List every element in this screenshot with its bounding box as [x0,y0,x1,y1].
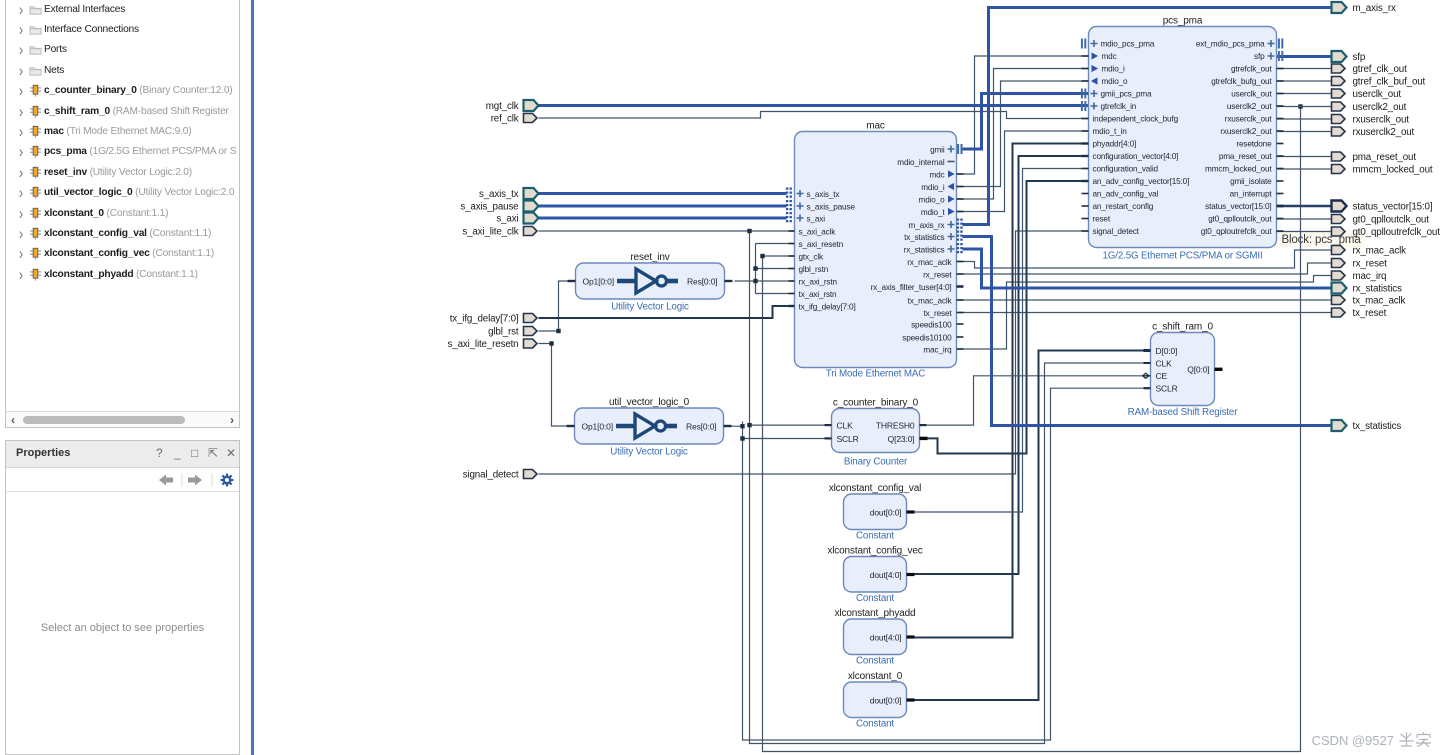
port s_axis_pause [524,201,539,212]
svg-text:an_restart_config: an_restart_config [1093,202,1154,211]
svg-text:mac_irq: mac_irq [1353,271,1387,282]
counter pin SCLR [825,437,832,439]
svg-text:tx_reset: tx_reset [924,309,953,318]
svg-text:Constant: Constant [856,656,894,667]
wire net userclk2 to mac gtx_clk [763,255,795,257]
pcs_pma pin gmii_isolate [1230,177,1283,186]
wire interface sfp [1277,55,1332,58]
svg-text:signal_detect: signal_detect [463,470,519,481]
pcs_pma pin phyaddr[4:0] [1082,140,1137,149]
pcs_pma pin rxuserclk_out [1225,115,1284,124]
svg-text:tx_statistics: tx_statistics [904,233,944,242]
pcs_pma pin gtrefclk_bufg_out [1211,77,1283,86]
svg-text:rxuserclk_out: rxuserclk_out [1225,115,1273,124]
interface mark mac right 248.5 [958,243,962,255]
svg-text:xlconstant_config_vec: xlconstant_config_vec [827,546,922,557]
svg-text:an_adv_config_vector[15:0]: an_adv_config_vector[15:0] [1093,177,1190,186]
wire to mac glbl_rstn [756,268,795,270]
wire net userclk2 bottom loop [763,107,1301,752]
port m_axis_rx [1332,2,1347,13]
port rxuserclk2_out [1332,127,1346,136]
wire net mdio_o to mdio_i [957,69,1089,200]
mac pin gtx_clk [789,253,824,262]
port sfp [1332,51,1347,62]
svg-text:dout[0:0]: dout[0:0] [870,507,902,517]
svg-text:s_axi_lite_clk: s_axi_lite_clk [462,227,518,238]
svg-text:SCLR: SCLR [837,434,859,444]
mac pin tx_ifg_delay[7:0] [789,303,856,312]
port userclk_out [1332,89,1346,98]
wire bus status_vector[15:0] [1277,205,1332,208]
svg-text:mdc: mdc [1102,52,1117,61]
svg-text:reset_inv: reset_inv [630,252,669,263]
svg-text:D[0:0]: D[0:0] [1156,346,1178,356]
counter pin THRESH0 [920,424,927,426]
pcs_pma pin gt0_qploutrefclk_out [1201,227,1284,236]
wire net mmcm_locked_out [1277,168,1332,170]
svg-text:s_axi_aclk: s_axi_aclk [799,228,837,237]
svg-text:c_shift_ram_0: c_shift_ram_0 [1152,322,1213,333]
svg-text:gmii_pcs_pma: gmii_pcs_pma [1101,90,1153,99]
wire bus xlconstant_phyadd to phyaddr[4:0] [910,144,1089,638]
port s_axi_lite_clk [524,227,538,236]
shift ram pin D[0:0] [1144,346,1178,356]
mac pin s_axi_aclk [789,228,837,237]
mac pin mdio_i [921,183,963,192]
svg-text:util_vector_logic_0: util_vector_logic_0 [609,397,690,408]
junction gtx_clk [760,254,764,258]
svg-text:mdio_o: mdio_o [1102,77,1129,86]
horizontal scrollbar [5,411,240,428]
svg-text:ext_mdio_pcs_pma: ext_mdio_pcs_pma [1196,40,1265,49]
svg-text:gt0_qplloutclk_out: gt0_qplloutclk_out [1208,215,1272,224]
svg-text:mac: mac [866,121,885,132]
wire interface s_axis_pause [539,205,787,208]
svg-text:sfp: sfp [1353,52,1366,63]
wire net s_axi_lite_resetn to util_vector_logic_0 Op1 [539,344,575,427]
svg-text:signal_detect: signal_detect [1093,227,1140,236]
svg-text:Res[0:0]: Res[0:0] [687,276,717,286]
pcs_pma pin resetdone [1236,140,1283,149]
svg-text:speedis10100: speedis10100 [902,334,952,343]
junction util Res [740,424,744,428]
port userclk2_out [1332,102,1346,111]
svg-text:CLK: CLK [837,421,854,431]
mac pin s_axi [797,215,826,224]
IP block util_vector_logic_0 (Utility Vector Logic) U-uvl0 inverter symbol [616,414,677,438]
wire net mdio_o to mac mdio_i [957,81,1089,187]
junction glbl_rst [556,329,560,333]
svg-text:gmii_isolate: gmii_isolate [1230,177,1272,186]
pcs_pma pin reset [1082,215,1111,224]
svg-text:gt0_qplloutrefclk_out: gt0_qplloutrefclk_out [1353,227,1440,238]
junction s_axi_lite_resetn [549,341,553,345]
svg-text:mdio_t: mdio_t [921,208,946,217]
svg-text:gtref_clk_buf_out: gtref_clk_buf_out [1353,77,1426,88]
svg-text:rx_mac_aclk: rx_mac_aclk [1353,246,1407,257]
mac pin mdio_o [919,195,964,204]
wire to mac rx_axi_rstn [756,280,795,282]
wire bus tx_ifg_delay[7:0] [539,306,795,318]
port gtref_clk_buf_out [1332,77,1346,86]
wire net mdc [957,56,1089,174]
panel divider sash [251,0,254,755]
svg-text:rx_reset: rx_reset [1353,259,1388,270]
svg-text:sfp: sfp [1254,52,1265,61]
wire util_vector_logic Res out [724,425,743,427]
input port signal_detect [463,470,519,481]
mac pin tx_mac_aclk [908,297,964,306]
svg-text:rx_statistics: rx_statistics [904,246,945,255]
svg-text:mdio_internal: mdio_internal [897,158,945,167]
port rxuserclk_out [1332,115,1346,124]
svg-text:tx_ifg_delay[7:0]: tx_ifg_delay[7:0] [450,314,519,325]
port tx_ifg_delay[7:0] [524,314,538,323]
wire net counter THRESH0 to c_shift_ram CE [920,376,1143,425]
pcs_pma pin gt0_qplloutclk_out [1208,215,1283,224]
port status_vector[15:0] [1332,201,1347,212]
IP block xlconstant_phyadd (Constant) [835,608,916,667]
IP block reset_inv (Utility Vector Logic) U-resetinv Res pin [725,280,733,282]
svg-text:mdio_o: mdio_o [919,196,946,205]
wire net gt0_qplloutclk_out [1277,218,1332,220]
wire net tx_mac_aclk [957,299,1332,301]
svg-text:CLK: CLK [1156,358,1173,368]
pcs_pma pin sfp [1254,52,1274,61]
mac pin speedis100 [911,321,963,330]
wire net xlconstant_config_val to configuration_valid [910,169,1089,513]
shift ram pin Q[0:0] [1215,368,1223,371]
pcs_pma pin gtrefclk_in [1091,102,1137,111]
IP block c_counter_binary_0 (Binary Counter) U-counter [832,398,920,468]
wire net rx_reset [957,263,1332,274]
svg-text:THRESH0: THRESH0 [876,421,915,431]
mac pin m_axis_rx [909,221,955,230]
pcs_pma pin status_vector[15:0] [1205,202,1283,211]
svg-text:Constant: Constant [856,531,894,542]
svg-text:Tri Mode Ethernet MAC: Tri Mode Ethernet MAC [826,369,925,380]
svg-text:gmii: gmii [930,146,945,155]
svg-text:xlconstant_phyadd: xlconstant_phyadd [835,608,916,619]
port gt0_qplloutclk_out [1332,215,1346,224]
svg-text:an_interrupt: an_interrupt [1230,190,1273,199]
svg-text:s_axi: s_axi [496,214,518,225]
port tx_mac_aclk [1332,296,1346,305]
svg-text:RAM-based Shift Register: RAM-based Shift Register [1128,407,1239,418]
svg-text:an_adv_config_val: an_adv_config_val [1093,190,1159,199]
wire net pma_reset_out [1277,156,1332,158]
junction counter CLK tap [747,423,751,427]
interface mark mac 205.5 [787,200,791,212]
IP block pcs_pma (1G/2.5G Ethernet PCS/PMA or SGMII) U-pcs [1089,16,1277,262]
xlconstant_config_val pin dout[0:0] [870,507,915,517]
svg-text:s_axis_tx: s_axis_tx [479,189,519,200]
input port glbl_rst [488,327,519,338]
watermark CSDN [1312,732,1432,748]
svg-text:Q[0:0]: Q[0:0] [1187,365,1209,375]
svg-text:gt0_qploutrefclk_out: gt0_qploutrefclk_out [1201,227,1273,236]
svg-text:glbl_rstn: glbl_rstn [799,265,829,274]
port s_axi_lite_resetn [524,339,538,348]
IP block reset_inv (Utility Vector Logic) U-resetinv inverter symbol [617,269,678,293]
svg-text:userclk_out: userclk_out [1353,89,1402,100]
svg-text:dout[0:0]: dout[0:0] [870,695,902,705]
mac pin mdio_t [921,208,964,217]
svg-text:tx_ifg_delay[7:0]: tx_ifg_delay[7:0] [799,303,856,312]
svg-text:mgt_clk: mgt_clk [486,101,519,112]
pcs_pma pin mmcm_locked_out [1205,165,1283,174]
svg-text:rx_axi_rstn: rx_axi_rstn [799,278,838,287]
svg-text:tx_statistics: tx_statistics [1353,421,1402,432]
svg-text:pma_reset_out: pma_reset_out [1219,152,1273,161]
svg-text:ref_clk: ref_clk [491,114,519,125]
mac pin mdio_internal [897,158,954,167]
svg-text:Utility Vector Logic: Utility Vector Logic [611,302,689,313]
svg-text:mac_irq: mac_irq [923,346,952,355]
pcs_pma pin an_interrupt [1230,190,1284,199]
wire interface s_axi [539,217,787,220]
pcs_pma pin mdio_t_in [1082,127,1128,136]
svg-text:Q[23:0]: Q[23:0] [888,434,915,444]
mac pin tx_statistics [904,233,954,242]
wire net s_axi_lite_clk to c_shift_ram CLK (bottom route) [750,231,1151,744]
port rx_mac_aclk [1332,246,1346,255]
svg-text:independent_clock_bufg: independent_clock_bufg [1093,115,1179,124]
svg-text:mdio_pcs_pma: mdio_pcs_pma [1101,40,1155,49]
mac pin s_axis_tx [797,190,840,199]
port pma_reset_out [1332,152,1346,161]
svg-text:mdc: mdc [929,171,944,180]
svg-text:userclk2_out: userclk2_out [1353,102,1407,113]
port gt0_qplloutrefclk_out [1332,227,1346,236]
svg-text:Op1[0:0]: Op1[0:0] [582,421,613,431]
svg-text:s_axis_pause: s_axis_pause [807,203,856,212]
input port s_axi [496,214,518,225]
port ref_clk [524,114,538,123]
input port s_axis_tx [479,189,519,200]
pcs_pma pin mdio_pcs_pma [1091,40,1155,49]
properties panel [5,440,240,755]
wire net clk to counter CLK [750,424,832,426]
svg-text:tx_reset: tx_reset [1353,308,1387,319]
mac pin tx_axi_rstn [789,290,838,299]
pcs_pma pin gtrefclk_out [1231,65,1284,74]
svg-text:gtx_clk: gtx_clk [799,253,824,262]
svg-text:xlconstant_0: xlconstant_0 [848,671,903,682]
svg-text:rxuserclk_out: rxuserclk_out [1353,115,1410,126]
design hierarchy tree panel [5,0,240,428]
wire interface s_axis_tx [539,192,787,195]
svg-text:rx_statistics: rx_statistics [1353,284,1402,295]
port mgt_clk [524,100,539,111]
port s_axis_tx [524,188,539,199]
pcs_pma pin independent_clock_bufg [1082,115,1179,124]
svg-text:Res[0:0]: Res[0:0] [686,421,716,431]
svg-text:gtrefclk_in: gtrefclk_in [1101,102,1137,111]
wire net userclk2_out [1277,106,1332,108]
IP block xlconstant_config_val (Constant) [829,483,921,542]
svg-text:rx_mac_aclk: rx_mac_aclk [907,258,952,267]
junction reset comb a [753,266,757,270]
pcs_pma pin an_adv_config_vector[15:0] [1082,177,1190,186]
wire interface gmii to gmii_pcs_pma [963,94,1089,150]
interface mark mac right 236 [958,231,962,243]
svg-text:tx_mac_aclk: tx_mac_aclk [908,297,953,306]
wire interface tx_statistics [963,237,1332,426]
mac pin rx_axi_rstn [789,278,838,287]
wire reset_inv Res to comb [735,280,756,282]
wire net userclk_out [1277,93,1332,95]
svg-text:dout[4:0]: dout[4:0] [870,570,902,580]
interface mark mac 217.5 [787,212,791,224]
junction userclk2_out [1298,104,1302,108]
wire to mac s_axi_resetn [756,243,795,245]
pcs_pma pin mdio_o [1082,77,1129,86]
wire net mac_irq [957,276,1332,350]
wire interface mgt_clk to gtrefclk_in [539,104,1089,107]
input port s_axis_pause [460,202,519,213]
mac pin s_axis_pause [797,203,856,212]
svg-text:reset: reset [1093,215,1111,224]
interface mark mac gmii [958,144,961,154]
svg-text:s_axi_lite_resetn: s_axi_lite_resetn [448,339,519,350]
svg-text:status_vector[15:0]: status_vector[15:0] [1353,202,1433,213]
IP block util_vector_logic_0 (Utility Vector Logic) U-uvl0 Op1 pin [567,425,575,427]
svg-text:CE: CE [1156,371,1168,381]
IP block util_vector_logic_0 (Utility Vector Logic) U-uvl0 Res pin [724,425,732,427]
mac pin mdc [929,170,963,179]
svg-text:pma_reset_out: pma_reset_out [1353,152,1417,163]
svg-text:s_axis_pause: s_axis_pause [460,202,519,213]
mac pin rx_axis_filter_tuser[4:0] [871,283,964,292]
port rx_reset [1332,259,1346,268]
port mac_irq [1332,271,1346,280]
svg-text:rxuserclk2_out: rxuserclk2_out [1353,127,1415,138]
svg-text:mdio_i: mdio_i [1102,65,1126,74]
svg-text:rx_reset: rx_reset [923,271,952,280]
mac pin gmii [930,146,954,155]
svg-text:gtref_clk_out: gtref_clk_out [1353,64,1408,75]
svg-text:gtrefclk_bufg_out: gtrefclk_bufg_out [1211,77,1272,86]
mac pin rx_statistics [904,246,955,255]
svg-text:tx_axi_rstn: tx_axi_rstn [799,290,838,299]
mac pin s_axi_resetn [789,240,844,249]
mac pin glbl_rstn [789,265,829,274]
mac pin rx_reset [923,271,963,280]
wire net gt0_qplloutrefclk_out [1277,231,1332,233]
svg-text:mmcm_locked_out: mmcm_locked_out [1205,165,1272,174]
wire interface m_axis_rx [963,8,1332,225]
svg-text:speedis100: speedis100 [911,321,952,330]
interface mark mac right 224 [958,219,962,231]
pcs_pma pin userclk2_out [1227,102,1284,111]
mac pin rx_mac_aclk [907,258,963,267]
svg-text:xlconstant_config_val: xlconstant_config_val [829,483,921,494]
counter pin CLK [825,424,832,426]
svg-text:configuration_valid: configuration_valid [1093,165,1159,174]
svg-text:mdio_i: mdio_i [921,183,945,192]
shift ram pin SCLR [1144,384,1178,394]
wire net rxuserclk2_out [1277,131,1332,133]
svg-text:resetdone: resetdone [1236,140,1272,149]
svg-text:glbl_rst: glbl_rst [488,327,519,338]
port rx_statistics [1332,283,1347,294]
shift ram pin CLK [1144,358,1173,368]
svg-text:configuration_vector[4:0]: configuration_vector[4:0] [1093,152,1179,161]
svg-text:dout[4:0]: dout[4:0] [870,632,902,642]
svg-text:phyaddr[4:0]: phyaddr[4:0] [1093,140,1137,149]
wire net mdio_t to mdio_t_in [957,131,1089,212]
pcs_pma pin signal_detect [1082,227,1140,236]
svg-text:Op1[0:0]: Op1[0:0] [583,276,614,286]
pcs_pma pin configuration_valid [1082,165,1159,174]
svg-text:SCLR: SCLR [1156,384,1178,394]
wire net gtref_clk_buf_out [1277,80,1332,82]
svg-text:s_axi_resetn: s_axi_resetn [799,240,844,249]
svg-text:m_axis_rx: m_axis_rx [909,221,945,230]
wire vertical reset comb [755,244,757,294]
svg-text:s_axi: s_axi [807,215,826,224]
svg-text:rx_axis_filter_tuser[4:0]: rx_axis_filter_tuser[4:0] [871,283,952,292]
mac pin tx_reset [924,309,964,318]
port s_axi [524,213,539,224]
input port tx_ifg_delay[7:0] [450,314,519,325]
xlconstant_0 pin dout[0:0] [870,695,915,705]
input port s_axi_lite_resetn [448,339,519,350]
wire net ref_clk to independent_clock_bufg [539,112,1089,119]
wire bus counter Q to an_adv_config_vector[15:0] [920,181,1089,454]
port glbl_rst [524,327,538,336]
pcs_pma pin mdc [1082,52,1117,61]
pcs_pma pin ext_mdio_pcs_pma [1196,40,1275,49]
wire net signal_detect to pcs_pma [539,231,1089,474]
pcs_pma pin an_restart_config [1082,202,1154,211]
interface mark mac 193 [787,188,791,200]
mac pin speedis10100 [902,334,963,343]
tooltip Block: pcs_pma [1277,231,1365,248]
wire net tx_reset [957,312,1332,314]
port tx_reset [1332,308,1346,317]
interface mark pcs left 105.5 [1082,101,1085,111]
svg-text:s_axis_tx: s_axis_tx [807,190,840,199]
shift ram pin CE [1144,371,1168,381]
svg-text:Binary Counter: Binary Counter [844,457,908,468]
pcs_pma pin an_adv_config_val [1082,190,1159,199]
pcs_pma pin mdio_i [1082,65,1126,74]
svg-text:Constant: Constant [856,719,894,730]
svg-text:mdio_t_in: mdio_t_in [1093,127,1128,136]
svg-text:Constant: Constant [856,593,894,604]
svg-text:c_counter_binary_0: c_counter_binary_0 [833,398,919,409]
input port s_axi_lite_clk [462,227,518,238]
interface mark pcs left 43 [1082,39,1085,49]
input port mgt_clk [486,101,519,112]
svg-text:pcs_pma: pcs_pma [1163,16,1203,27]
svg-text:userclk2_out: userclk2_out [1227,102,1272,111]
junction counter SCLR tap [740,436,744,440]
svg-text:m_axis_rx: m_axis_rx [1353,3,1397,14]
xlconstant_phyadd pin dout[4:0] [870,632,915,642]
port gtref_clk_out [1332,64,1346,73]
pcs_pma pin rxuserclk2_out [1220,127,1283,136]
junction s_axi_lite_clk [747,229,751,233]
wire net gtref_clk_out [1277,68,1332,70]
interface mark pcs right 55.5 [1279,51,1282,61]
svg-text:userclk_out: userclk_out [1231,90,1272,99]
port signal_detect [524,470,538,479]
CE inverter bubble [1143,373,1149,378]
wire net util Res to counter SCLR [743,438,832,440]
